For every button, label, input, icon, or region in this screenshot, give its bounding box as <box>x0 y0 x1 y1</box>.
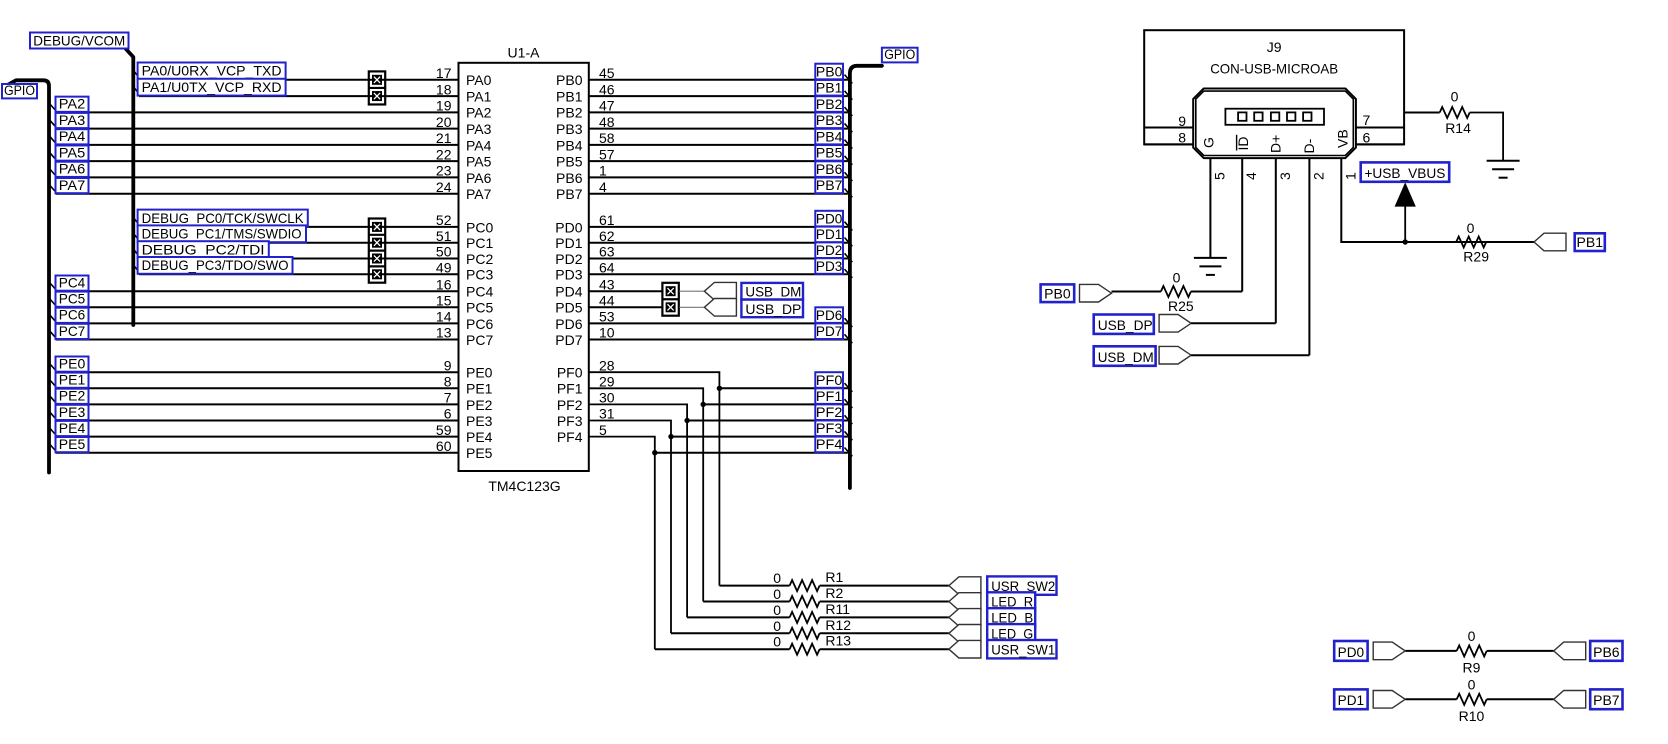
svg-text:58: 58 <box>599 130 615 146</box>
net label DEBUG/VCOM <box>30 32 129 48</box>
port USB_DM <box>1159 346 1191 364</box>
svg-text:R25: R25 <box>1168 298 1194 314</box>
svg-text:8: 8 <box>444 374 452 390</box>
svg-text:PE4: PE4 <box>59 420 86 436</box>
svg-text:USR_SW1: USR_SW1 <box>991 641 1055 657</box>
svg-text:48: 48 <box>599 114 615 130</box>
svg-text:PB5: PB5 <box>556 154 583 170</box>
svg-text:R29: R29 <box>1463 248 1489 264</box>
net label PD7 (bus) <box>815 323 852 343</box>
svg-text:PD0: PD0 <box>1338 645 1365 660</box>
net label USR_SW1 <box>987 640 1056 658</box>
net PE3: label + wire <box>50 404 459 421</box>
wire PB2 <box>589 111 848 113</box>
svg-text:DEBUG_PC2/TDI: DEBUG_PC2/TDI <box>142 241 265 257</box>
svg-text:PC5: PC5 <box>59 291 86 307</box>
svg-text:PC5: PC5 <box>466 300 493 316</box>
svg-text:PF1: PF1 <box>816 389 843 404</box>
svg-text:PB4: PB4 <box>556 137 583 153</box>
port PD0 <box>1373 642 1405 660</box>
port PB0 <box>1080 284 1112 302</box>
net label PF2 (bus) <box>815 404 852 424</box>
jumper block on PD4/PD5 <box>662 283 678 316</box>
svg-text:PA3: PA3 <box>466 121 492 137</box>
svg-text:PF4: PF4 <box>557 429 583 445</box>
svg-text:PE5: PE5 <box>466 445 493 461</box>
svg-text:53: 53 <box>599 309 615 325</box>
svg-text:R10: R10 <box>1459 708 1485 724</box>
net label PD0 (bus) <box>815 211 852 231</box>
net PA0/U0RX_VCP_TXD: label + wire <box>134 63 458 80</box>
svg-text:0: 0 <box>1467 220 1475 236</box>
svg-text:6: 6 <box>1363 130 1371 146</box>
svg-text:1: 1 <box>1342 172 1358 180</box>
net label PB1 (bus) <box>815 80 852 100</box>
net PC7: label + wire <box>50 323 459 340</box>
svg-text:PA2: PA2 <box>59 96 86 112</box>
net label USB_DP <box>741 300 803 318</box>
svg-text:47: 47 <box>599 98 615 114</box>
svg-text:60: 60 <box>436 438 452 454</box>
resistor R29 (0 ohm) <box>1456 220 1534 264</box>
svg-text:R9: R9 <box>1463 659 1481 675</box>
jumper block on PA0/PA1 <box>369 71 385 104</box>
net PA2: label + wire <box>50 96 459 113</box>
svg-text:21: 21 <box>436 130 452 146</box>
svg-text:57: 57 <box>599 146 615 162</box>
resistor R1 (0 ohm) <box>719 569 949 591</box>
svg-text:28: 28 <box>599 357 615 373</box>
wire PB5 <box>589 160 848 162</box>
svg-text:PF0: PF0 <box>816 373 843 388</box>
resistor R11 (0 ohm) <box>687 601 949 623</box>
jumper block on DEBUG_PC0-PC3 <box>369 219 385 283</box>
svg-text:PB6: PB6 <box>556 170 583 186</box>
svg-text:PE1: PE1 <box>466 381 493 397</box>
net label PD1 (bus) <box>815 227 852 247</box>
svg-text:PA3: PA3 <box>59 112 86 128</box>
svg-text:PD3: PD3 <box>816 259 843 274</box>
net label PB3 (bus) <box>815 113 852 133</box>
svg-text:PD3: PD3 <box>555 267 582 283</box>
wire PB0 <box>589 79 848 81</box>
wire PF2 branch to bus <box>687 420 848 422</box>
svg-text:PE1: PE1 <box>59 372 86 388</box>
svg-text:GPIO: GPIO <box>884 47 915 62</box>
port LED_G <box>949 625 981 643</box>
resistor R2 (0 ohm) <box>703 585 949 607</box>
IC U1-A rectangle <box>459 63 589 471</box>
svg-text:DEBUG/VCOM: DEBUG/VCOM <box>33 32 125 48</box>
svg-text:PD5: PD5 <box>555 300 582 316</box>
wire PD6 <box>589 322 848 324</box>
svg-text:61: 61 <box>599 212 615 228</box>
svg-text:24: 24 <box>436 179 452 195</box>
wire PD5 (to jumper) <box>589 306 663 308</box>
svg-text:PD0: PD0 <box>816 211 843 226</box>
net PA3: label + wire <box>50 112 459 129</box>
net label USB_DM <box>741 283 803 300</box>
svg-text:D+: D+ <box>1268 135 1284 153</box>
svg-text:0: 0 <box>1173 270 1181 286</box>
svg-text:USB_DP: USB_DP <box>1098 317 1153 333</box>
svg-text:20: 20 <box>436 114 452 130</box>
svg-text:PD1: PD1 <box>816 227 843 242</box>
svg-text:16: 16 <box>436 276 452 292</box>
net label PD6 (bus) <box>815 307 852 327</box>
svg-text:PF2: PF2 <box>557 397 583 413</box>
wire PD3 <box>589 273 848 275</box>
J9 pin 2 wire (D-) <box>1308 158 1310 355</box>
svg-text:PA1: PA1 <box>466 88 492 104</box>
svg-text:PA4: PA4 <box>466 137 492 153</box>
svg-text:DEBUG_PC0/TCK/SWCLK: DEBUG_PC0/TCK/SWCLK <box>142 210 305 226</box>
svg-text:PB6: PB6 <box>816 162 843 177</box>
svg-text:PD7: PD7 <box>816 324 843 339</box>
svg-text:VB: VB <box>1335 129 1351 148</box>
net label PF3 (bus) <box>815 421 852 441</box>
J9 pin 9 wire <box>1144 127 1193 129</box>
port USB_DP (PD5) <box>704 299 736 317</box>
svg-text:PB3: PB3 <box>816 113 843 128</box>
resistor R13 (0 ohm) <box>655 633 949 655</box>
J9 pin 8 wire <box>1144 143 1193 145</box>
J9 pin 5 wire (G to ground) <box>1209 158 1211 258</box>
wire USB_DP to J9 pin 3 <box>1191 322 1276 324</box>
svg-text:PF4: PF4 <box>816 437 843 452</box>
net label PF1 (bus) <box>815 388 852 408</box>
svg-text:PD6: PD6 <box>816 308 843 323</box>
wire PB4 <box>589 144 848 146</box>
svg-text:PA6: PA6 <box>59 161 86 177</box>
svg-text:PA5: PA5 <box>59 144 86 160</box>
resistor R25 (0 ohm) <box>1112 270 1243 314</box>
svg-text:4: 4 <box>1243 172 1259 180</box>
net PA6: label + wire <box>50 161 459 178</box>
svg-text:PD2: PD2 <box>555 251 582 267</box>
J9 contacts (5 squares) <box>1238 112 1311 120</box>
bus GPIO right (thick) <box>850 66 882 488</box>
svg-text:PC4: PC4 <box>466 284 493 300</box>
junction PF4 <box>652 450 657 455</box>
svg-text:44: 44 <box>599 293 615 309</box>
svg-text:PB2: PB2 <box>556 105 583 121</box>
bus GPIO left (thick) <box>8 80 50 472</box>
svg-text:PE3: PE3 <box>59 404 86 420</box>
svg-text:PB1: PB1 <box>556 88 583 104</box>
svg-text:PE5: PE5 <box>59 436 86 452</box>
svg-text:PC6: PC6 <box>59 307 86 323</box>
junction PF0 <box>717 386 722 391</box>
svg-text:0: 0 <box>1468 628 1476 644</box>
svg-text:49: 49 <box>436 260 452 276</box>
svg-text:R2: R2 <box>825 585 843 601</box>
svg-text:PA0/U0RX_VCP_TXD: PA0/U0RX_VCP_TXD <box>142 63 282 79</box>
svg-text:PA7: PA7 <box>59 177 86 193</box>
IC pin names PA0-PA7 <box>466 72 492 202</box>
net PE0: label + wire <box>50 356 459 373</box>
net label PF4 (bus) <box>815 437 852 457</box>
svg-text:PC3: PC3 <box>466 267 493 283</box>
net label PD3 (bus) <box>815 258 852 278</box>
net label USB_DP (port) <box>1094 315 1154 334</box>
net label GPIO (left) <box>2 83 37 98</box>
svg-text:62: 62 <box>599 228 615 244</box>
svg-text:PE0: PE0 <box>466 365 493 381</box>
svg-text:0: 0 <box>773 618 781 634</box>
wire PD4 jumper to port <box>680 290 705 292</box>
net label PD2 (bus) <box>815 242 852 262</box>
port LED_R <box>949 593 981 611</box>
J9 USB receptacle outline (outer) <box>1193 89 1356 159</box>
net label LED_B <box>987 608 1035 626</box>
wire PF0 branch to bus <box>719 387 848 389</box>
svg-text:PC0: PC0 <box>466 219 493 235</box>
wire PD1 <box>589 242 848 244</box>
svg-text:13: 13 <box>436 325 452 341</box>
svg-text:GPIO: GPIO <box>4 83 35 98</box>
IC pin names PC0-PC7 <box>466 219 493 348</box>
IC pin numbers 17-24 (PA) <box>436 65 452 195</box>
svg-text:USB_DM: USB_DM <box>745 283 801 299</box>
svg-text:52: 52 <box>436 212 452 228</box>
svg-text:29: 29 <box>599 374 615 390</box>
svg-text:ID: ID <box>1235 137 1251 151</box>
wire PD4 (to jumper) <box>589 290 663 292</box>
resistor R10 (0 ohm) <box>1406 676 1554 723</box>
wire PB3 <box>589 128 848 130</box>
net label GPIO (right) <box>882 47 918 62</box>
svg-text:9: 9 <box>444 357 452 373</box>
svg-text:9: 9 <box>1178 113 1186 129</box>
port PB7 <box>1554 691 1586 709</box>
net PE2: label + wire <box>50 388 459 405</box>
svg-text:PA2: PA2 <box>466 105 492 121</box>
wire PF2 (pin to resistor R row) <box>589 404 687 617</box>
junction VBUS/R29 <box>1403 239 1408 244</box>
svg-text:PF3: PF3 <box>816 421 843 436</box>
svg-text:R13: R13 <box>825 633 851 649</box>
J9 pin 3 wire (D+) <box>1275 158 1277 323</box>
svg-text:PB7: PB7 <box>816 178 843 193</box>
svg-text:15: 15 <box>436 293 452 309</box>
IC pin names PE0-PE5 <box>466 365 493 462</box>
svg-text:PD6: PD6 <box>555 316 582 332</box>
net DEBUG_PC2/TDI: label + wire <box>134 241 458 258</box>
wire PB7 <box>589 193 848 195</box>
wire PD2 <box>589 258 848 260</box>
svg-text:PB2: PB2 <box>816 97 843 112</box>
wire PD7 <box>589 339 848 341</box>
svg-text:5: 5 <box>599 422 607 438</box>
svg-text:PD1: PD1 <box>1338 693 1365 708</box>
net label PB4 (bus) <box>815 129 852 149</box>
port LED_B <box>949 609 981 627</box>
resistor R14 (0 ohm) <box>1404 89 1503 161</box>
svg-text:0: 0 <box>773 634 781 650</box>
net DEBUG_PC0/TCK/SWCLK: label + wire <box>134 210 458 227</box>
svg-text:PD0: PD0 <box>555 219 582 235</box>
svg-text:1: 1 <box>599 163 607 179</box>
port PB1 <box>1534 233 1566 251</box>
svg-text:PA0: PA0 <box>466 72 492 88</box>
net PE5: label + wire <box>50 436 459 453</box>
svg-text:45: 45 <box>599 65 615 81</box>
svg-text:PA6: PA6 <box>466 170 492 186</box>
port PB6 <box>1554 642 1586 660</box>
port USR_SW2 <box>949 577 981 595</box>
svg-text:PD2: PD2 <box>816 243 843 258</box>
svg-text:PB4: PB4 <box>816 129 843 144</box>
resistor R9 (0 ohm) <box>1406 628 1554 675</box>
svg-text:19: 19 <box>436 98 452 114</box>
svg-text:30: 30 <box>599 390 615 406</box>
net DEBUG_PC3/TDO/SWO: label + wire <box>134 257 458 274</box>
net label LED_G <box>987 624 1035 642</box>
svg-text:PD7: PD7 <box>555 332 582 348</box>
svg-text:7: 7 <box>1363 112 1371 128</box>
svg-text:PC6: PC6 <box>466 316 493 332</box>
svg-text:PE2: PE2 <box>466 397 493 413</box>
svg-text:U1-A: U1-A <box>508 45 541 61</box>
svg-text:PF1: PF1 <box>557 381 583 397</box>
svg-text:PB3: PB3 <box>556 121 583 137</box>
svg-text:63: 63 <box>599 244 615 260</box>
svg-text:59: 59 <box>436 422 452 438</box>
svg-text:17: 17 <box>436 65 452 81</box>
wire USB_DM to J9 pin 2 <box>1191 354 1309 356</box>
J9 pin 1 wire (VB) <box>1341 158 1534 242</box>
svg-text:18: 18 <box>436 81 452 97</box>
svg-text:PA1/U0TX_VCP_RXD: PA1/U0TX_VCP_RXD <box>142 79 282 95</box>
svg-text:2: 2 <box>1310 172 1326 180</box>
J9 pin 7 wire <box>1356 127 1404 129</box>
svg-text:51: 51 <box>436 228 452 244</box>
svg-text:+USB_VBUS: +USB_VBUS <box>1364 165 1445 181</box>
svg-text:USB_DP: USB_DP <box>745 301 801 317</box>
wire PD0 <box>589 226 848 228</box>
svg-text:23: 23 <box>436 163 452 179</box>
svg-text:10: 10 <box>599 325 615 341</box>
svg-text:R11: R11 <box>825 601 850 617</box>
connector J9 outline <box>1144 30 1404 144</box>
IC pin names PB0-PB7 <box>556 72 583 202</box>
net label PF0 (bus) <box>815 372 852 392</box>
net label PB6 <box>1590 641 1622 661</box>
net label PB5 (bus) <box>815 145 852 165</box>
svg-text:TM4C123G: TM4C123G <box>488 478 560 494</box>
net PC4: label + wire <box>50 275 459 292</box>
net PA5: label + wire <box>50 144 459 161</box>
svg-text:PB1: PB1 <box>1577 235 1604 250</box>
net PC6: label + wire <box>50 307 459 324</box>
IC pin numbers (PD) <box>599 212 615 341</box>
svg-text:PE4: PE4 <box>466 429 493 445</box>
wire PB1 <box>589 95 848 97</box>
svg-text:PC7: PC7 <box>59 323 86 339</box>
junction PF1 <box>701 402 706 407</box>
svg-text:J9: J9 <box>1267 39 1282 55</box>
svg-text:14: 14 <box>436 309 452 325</box>
wire PF3 branch to bus <box>671 436 848 438</box>
J9 pin 4 wire (ID) <box>1241 158 1243 292</box>
net label USB_DM (port) <box>1094 346 1156 366</box>
svg-text:0: 0 <box>1451 89 1459 105</box>
svg-text:D-: D- <box>1301 138 1317 153</box>
svg-text:PD1: PD1 <box>555 235 582 251</box>
ground at J9 pin 5 <box>1194 258 1227 275</box>
wire PF4 branch to bus <box>655 452 848 454</box>
IC pin numbers (PF) <box>599 357 615 437</box>
wire PB6 <box>589 176 848 178</box>
svg-text:PC7: PC7 <box>466 332 493 348</box>
svg-text:46: 46 <box>599 81 615 97</box>
junction PF2 <box>684 418 689 423</box>
resistor R12 (0 ohm) <box>671 617 949 639</box>
wire PF3 (pin to resistor R row) <box>589 421 671 634</box>
svg-text:PF2: PF2 <box>816 405 843 420</box>
IC pin numbers (PB) <box>599 65 615 195</box>
svg-text:0: 0 <box>773 602 781 618</box>
net label PB1 <box>1575 233 1605 251</box>
svg-text:4: 4 <box>599 179 607 195</box>
svg-text:PB1: PB1 <box>816 81 843 96</box>
svg-text:R12: R12 <box>825 617 851 633</box>
svg-text:PB7: PB7 <box>1593 693 1620 708</box>
svg-text:50: 50 <box>436 244 452 260</box>
svg-text:DEBUG_PC3/TDO/SWO: DEBUG_PC3/TDO/SWO <box>142 257 289 273</box>
IC pin numbers (PC) <box>436 212 452 341</box>
svg-text:8: 8 <box>1178 130 1186 146</box>
port USR_SW1 <box>949 640 981 658</box>
net label PB0 (bus) <box>815 64 852 84</box>
wire PF1 branch to bus <box>703 403 848 405</box>
port PD1 <box>1373 691 1405 709</box>
net PA4: label + wire <box>50 128 459 145</box>
svg-text:PB5: PB5 <box>816 146 843 161</box>
net label USR_SW2 <box>987 576 1056 594</box>
svg-text:PD4: PD4 <box>555 284 582 300</box>
net label LED_R <box>987 592 1035 610</box>
ground at R14 <box>1487 161 1520 178</box>
svg-text:31: 31 <box>599 406 615 422</box>
svg-text:R14: R14 <box>1445 120 1471 136</box>
svg-text:64: 64 <box>599 260 615 276</box>
junction PF3 <box>668 434 673 439</box>
svg-text:PE3: PE3 <box>466 413 493 429</box>
svg-text:PA5: PA5 <box>466 154 492 170</box>
net label PB7 (bus) <box>815 178 852 198</box>
net PE1: label + wire <box>50 372 459 389</box>
svg-text:PB0: PB0 <box>1044 286 1071 301</box>
svg-text:PB0: PB0 <box>816 64 843 79</box>
wire PF4 (pin to resistor R row) <box>589 437 655 650</box>
svg-text:PB6: PB6 <box>1593 645 1620 660</box>
svg-text:PC2: PC2 <box>466 251 493 267</box>
power symbol +USB_VBUS <box>1361 162 1450 242</box>
IC pin numbers (PE) <box>436 357 452 454</box>
svg-text:43: 43 <box>599 276 615 292</box>
net PA7: label + wire <box>50 177 459 194</box>
net label PD0 <box>1334 641 1367 661</box>
svg-text:R1: R1 <box>825 569 843 585</box>
svg-text:7: 7 <box>444 390 452 406</box>
svg-text:22: 22 <box>436 146 452 162</box>
net DEBUG_PC1/TMS/SWDIO: label + wire <box>134 225 458 242</box>
svg-text:PE2: PE2 <box>59 388 86 404</box>
svg-text:6: 6 <box>444 406 452 422</box>
svg-text:PF0: PF0 <box>557 365 583 381</box>
